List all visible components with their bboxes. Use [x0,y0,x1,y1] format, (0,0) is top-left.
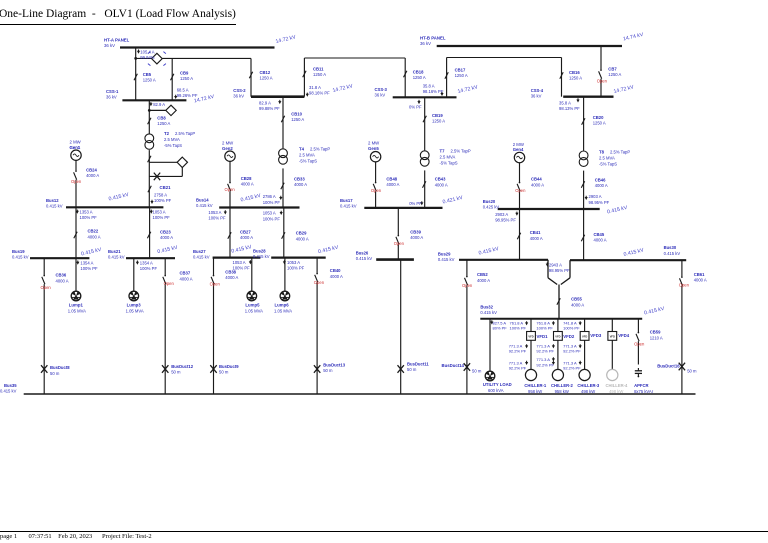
svg-text:100% PF: 100% PF [263,200,281,205]
svg-text:1053 A: 1053 A [263,211,276,216]
svg-text:1250 A: 1250 A [432,119,445,124]
svg-text:Open: Open [679,283,690,288]
svg-text:50 m: 50 m [171,369,181,374]
svg-text:98.95% PF: 98.95% PF [549,268,570,273]
svg-text:4000 A: 4000 A [694,278,707,283]
svg-text:98.16% PF: 98.16% PF [423,89,444,94]
svg-text:CB37: CB37 [180,271,191,276]
svg-text:Bus32: Bus32 [480,305,493,310]
svg-text:T4: T4 [299,147,305,152]
svg-text:2758 A: 2758 A [154,192,167,197]
svg-text:2943 A: 2943 A [549,263,562,268]
svg-text:100% PF: 100% PF [510,326,527,331]
svg-text:0.415 kV: 0.415 kV [664,251,681,256]
svg-text:CSS-1: CSS-1 [106,89,119,94]
svg-text:Open: Open [225,187,236,192]
svg-text:36 kV: 36 kV [106,95,117,100]
svg-text:CB33: CB33 [294,177,305,182]
svg-text:1053 A: 1053 A [208,210,221,215]
svg-text:1053 A: 1053 A [233,260,246,265]
svg-text:50 m: 50 m [407,367,417,372]
svg-text:80% PF: 80% PF [493,326,508,331]
svg-text:98.13% PF: 98.13% PF [559,106,580,111]
svg-text:Bus29: Bus29 [438,251,451,256]
svg-text:1053 A: 1053 A [153,210,166,215]
svg-text:CSS-3: CSS-3 [375,87,388,92]
svg-text:CB11: CB11 [313,67,324,72]
svg-text:4000 A: 4000 A [86,173,99,178]
svg-text:HT-B PANEL: HT-B PANEL [420,36,446,41]
svg-text:92.2% PF: 92.2% PF [536,362,554,367]
svg-text:1210 A: 1210 A [650,335,663,340]
svg-text:99.26% PF: 99.26% PF [177,93,198,98]
svg-text:VFD3: VFD3 [590,333,602,338]
svg-text:98.16% PF: 98.16% PF [309,90,330,95]
svg-text:4000 A: 4000 A [330,274,343,279]
svg-text:35.8 A: 35.8 A [423,84,435,89]
svg-text:Bus27: Bus27 [193,249,206,254]
svg-text:CSS-4: CSS-4 [531,88,544,93]
svg-text:36 kV: 36 kV [233,94,244,99]
svg-text:4000 A: 4000 A [530,236,543,241]
svg-text:T2: T2 [164,131,170,136]
svg-text:0.415 kV: 0.415 kV [240,193,262,204]
svg-text:50 m: 50 m [687,368,697,373]
svg-text:BusDuct14: BusDuct14 [442,363,465,368]
svg-text:1353 A: 1353 A [80,210,93,215]
svg-text:CB18: CB18 [413,70,424,75]
svg-text:4000 A: 4000 A [410,235,423,240]
svg-text:CHILLER-2: CHILLER-2 [551,383,574,388]
svg-text:92.2% PF: 92.2% PF [509,366,527,371]
svg-text:0.415 kV: 0.415 kV [438,257,455,262]
svg-text:0.415 kV: 0.415 kV [607,205,629,216]
svg-text:36 kV: 36 kV [375,93,386,98]
svg-text:Bus14: Bus14 [196,198,209,203]
svg-text:0.415 kV: 0.415 kV [157,245,179,256]
svg-text:4000 A: 4000 A [594,238,607,243]
svg-text:4000 A: 4000 A [294,182,307,187]
svg-text:Open: Open [515,188,526,193]
svg-text:CB28: CB28 [241,176,252,181]
svg-text:Open: Open [462,283,473,288]
svg-text:CB41: CB41 [530,230,541,235]
svg-text:14.72 kV: 14.72 kV [457,84,479,95]
svg-text:2.5% TapP: 2.5% TapP [310,147,330,152]
svg-text:Lump5: Lump5 [245,303,260,308]
svg-text:APFCR: APFCR [634,383,648,388]
svg-text:100% PF: 100% PF [154,198,172,203]
svg-text:CB20: CB20 [593,115,604,120]
svg-text:VFD1: VFD1 [537,334,549,339]
svg-text:498 kW: 498 kW [609,389,623,394]
svg-text:CB46: CB46 [595,178,606,183]
svg-text:CHILLER-1: CHILLER-1 [524,383,547,388]
svg-text:CB48: CB48 [386,177,397,182]
svg-text:36 kV: 36 kV [531,94,542,99]
svg-text:0.415 kV: 0.415 kV [0,389,17,394]
svg-text:1250 A: 1250 A [157,121,170,126]
svg-text:Bus28: Bus28 [253,248,266,253]
svg-text:92.2% PF: 92.2% PF [563,349,581,354]
svg-text:CB21: CB21 [160,185,172,190]
svg-text:600 kVA: 600 kVA [488,388,504,393]
svg-text:0.415 kV: 0.415 kV [81,247,103,258]
svg-text:0.421 kV: 0.421 kV [442,195,464,206]
svg-text:CB23: CB23 [160,229,171,234]
svg-text:0.415 kV: 0.415 kV [478,246,500,257]
svg-text:100% PF: 100% PF [153,215,171,220]
svg-text:CB45: CB45 [594,232,605,237]
svg-text:Open: Open [41,285,52,290]
svg-text:0.415 kV: 0.415 kV [356,256,373,261]
svg-text:2.5% TapP: 2.5% TapP [610,150,630,155]
svg-text:14.72 kV: 14.72 kV [332,83,354,94]
svg-text:98.95% PF: 98.95% PF [495,218,516,223]
svg-text:82.9 A: 82.9 A [153,102,165,107]
svg-text:100% PF: 100% PF [287,265,305,270]
svg-text:100% PF: 100% PF [80,215,98,220]
svg-text:4000 A: 4000 A [531,182,544,187]
svg-text:Open: Open [314,280,325,285]
svg-text:CB61: CB61 [694,272,705,277]
svg-text:CB8: CB8 [157,116,166,121]
svg-text:0.415 kV: 0.415 kV [644,306,666,317]
svg-text:50 m: 50 m [50,371,60,376]
svg-text:BusDuct12: BusDuct12 [171,364,194,369]
svg-text:4000 A: 4000 A [225,275,238,280]
svg-text:Bus17: Bus17 [340,198,353,203]
svg-text:0.415 kV: 0.415 kV [340,204,357,209]
svg-text:105.4 A: 105.4 A [140,49,154,54]
svg-text:CB43: CB43 [435,177,446,182]
svg-text:1.05 MVA: 1.05 MVA [245,308,263,313]
svg-text:1250 A: 1250 A [260,76,273,81]
svg-text:CB10: CB10 [291,112,302,117]
svg-text:0.415 kV: 0.415 kV [46,203,63,208]
svg-text:14.72 kV: 14.72 kV [613,84,635,95]
svg-text:1250 A: 1250 A [291,117,304,122]
svg-text:UTILITY LOAD: UTILITY LOAD [483,382,512,387]
svg-text:0.415 kV: 0.415 kV [193,254,210,259]
svg-text:CB19: CB19 [432,113,443,118]
svg-text:0.415 kV: 0.415 kV [480,310,497,315]
svg-text:2 MW: 2 MW [513,142,525,147]
svg-text:100% PF: 100% PF [563,326,580,331]
svg-text:4000 A: 4000 A [595,183,608,188]
svg-text:50 m: 50 m [219,369,229,374]
svg-text:4000 A: 4000 A [296,236,309,241]
svg-text:CB16: CB16 [569,70,580,75]
svg-text:Bus12: Bus12 [46,198,59,203]
svg-text:T7: T7 [440,149,446,154]
svg-text:Open: Open [371,188,382,193]
svg-text:1250 A: 1250 A [569,76,582,81]
svg-text:35.8 A: 35.8 A [559,100,571,105]
svg-text:BusDuct8: BusDuct8 [50,365,70,370]
svg-text:1250 A: 1250 A [313,72,326,77]
svg-text:4000 A: 4000 A [180,276,193,281]
svg-text:2.5 MVA: 2.5 MVA [599,156,615,161]
svg-text:BusDuct9: BusDuct9 [219,364,239,369]
svg-text:82.9 A: 82.9 A [259,100,271,105]
svg-text:VFD: VFD [555,334,560,338]
svg-text:Open: Open [71,179,82,184]
svg-text:CB5: CB5 [143,72,152,77]
svg-text:-5% TapS: -5% TapS [599,162,617,167]
svg-text:100% PF: 100% PF [233,265,251,270]
svg-text:2903 A: 2903 A [589,194,602,199]
svg-text:1053 A: 1053 A [287,260,300,265]
svg-text:1.05 MVA: 1.05 MVA [68,308,86,313]
svg-text:1250 A: 1250 A [593,121,606,126]
svg-text:Bus35: Bus35 [4,383,17,388]
svg-text:1250 A: 1250 A [455,73,468,78]
svg-text:CHILLER-4: CHILLER-4 [606,383,629,388]
svg-text:1250 A: 1250 A [180,76,193,81]
svg-text:Bus26: Bus26 [356,250,369,255]
svg-text:0.425 kV: 0.425 kV [483,204,500,209]
svg-text:92.2% PF: 92.2% PF [509,349,527,354]
svg-text:50 m: 50 m [472,368,482,373]
svg-text:1.05 MVA: 1.05 MVA [274,308,292,313]
svg-text:0% PF: 0% PF [409,105,422,110]
svg-text:2.5 MVA: 2.5 MVA [299,153,315,158]
svg-text:4000 A: 4000 A [435,182,448,187]
svg-text:0.415 kV: 0.415 kV [196,203,213,208]
svg-text:VFD: VFD [528,334,533,338]
svg-text:VFD2: VFD2 [563,334,575,339]
svg-text:Lump6: Lump6 [275,303,290,308]
svg-text:958 kW: 958 kW [555,389,569,394]
svg-text:99.88% PF: 99.88% PF [259,106,280,111]
svg-text:CB44: CB44 [531,177,542,182]
svg-text:2.5% TapP: 2.5% TapP [175,131,195,136]
svg-text:0.415 kV: 0.415 kV [253,254,270,259]
svg-text:CB22: CB22 [88,229,99,234]
svg-text:1250 A: 1250 A [608,72,621,77]
svg-text:CSS-2: CSS-2 [233,88,246,93]
svg-text:Open: Open [597,78,608,83]
svg-text:CB7: CB7 [608,67,617,72]
svg-text:VFD: VFD [610,334,615,338]
svg-text:0.415 kV: 0.415 kV [12,254,29,259]
svg-text:-5% TapS: -5% TapS [440,161,458,166]
svg-text:31.8 A: 31.8 A [309,85,321,90]
svg-text:0.415 kV: 0.415 kV [318,245,340,256]
svg-text:Bus20: Bus20 [483,199,496,204]
svg-text:100% PF: 100% PF [80,266,98,271]
svg-text:CB39: CB39 [410,230,421,235]
svg-text:498 kW: 498 kW [581,389,595,394]
svg-text:Open: Open [164,281,175,286]
svg-text:0.415 kV: 0.415 kV [108,254,125,259]
svg-text:36 kV: 36 kV [420,41,431,46]
svg-text:1354 A: 1354 A [140,260,153,265]
svg-text:BusDuct16: BusDuct16 [657,363,680,368]
svg-text:-5% TapS: -5% TapS [164,143,182,148]
svg-text:Open: Open [394,241,405,246]
svg-text:92.2% PF: 92.2% PF [563,366,581,371]
svg-text:Bus19: Bus19 [12,249,25,254]
svg-text:BusDuct11: BusDuct11 [407,362,429,367]
svg-text:CB36: CB36 [56,273,67,278]
svg-text:0.415 kV: 0.415 kV [623,247,645,258]
svg-text:T8: T8 [599,150,605,155]
svg-text:CB29: CB29 [296,231,307,236]
svg-text:CB9: CB9 [180,71,189,76]
svg-text:99.94%: 99.94% [140,55,154,60]
svg-text:958 kW: 958 kW [528,389,542,394]
svg-text:2 MW: 2 MW [368,141,380,146]
svg-text:2 MW: 2 MW [222,141,234,146]
svg-text:-5% TapS: -5% TapS [299,159,317,164]
svg-text:92.2% PF: 92.2% PF [536,349,554,354]
svg-text:100% PF: 100% PF [208,216,226,221]
svg-text:4000 A: 4000 A [386,182,399,187]
svg-text:50 m: 50 m [323,368,333,373]
svg-text:CB17: CB17 [455,68,466,73]
svg-text:CB40: CB40 [330,268,341,273]
svg-text:2.5% TapP: 2.5% TapP [451,149,471,154]
svg-text:1250 A: 1250 A [413,75,426,80]
svg-text:Open: Open [210,281,221,286]
svg-text:1354 A: 1354 A [80,260,93,265]
svg-text:0.415 kV: 0.415 kV [231,244,253,255]
svg-text:Open: Open [634,342,645,347]
svg-text:CHILLER-3: CHILLER-3 [577,383,600,388]
svg-text:2.5 MVA: 2.5 MVA [440,155,456,160]
svg-text:4000 A: 4000 A [241,182,254,187]
svg-text:4000 A: 4000 A [88,234,101,239]
svg-text:Gen1: Gen1 [70,145,81,150]
svg-text:HT-A PANEL: HT-A PANEL [104,38,130,43]
svg-text:1.05 MVA: 1.05 MVA [126,308,144,313]
svg-text:CB27: CB27 [240,229,251,234]
svg-text:Gen5: Gen5 [368,146,379,151]
svg-text:CB24: CB24 [86,168,97,173]
svg-text:14.72 kV: 14.72 kV [275,34,297,45]
svg-text:68.5 A: 68.5 A [177,88,189,93]
svg-text:Bus30: Bus30 [664,245,677,250]
svg-text:36 kV: 36 kV [104,43,115,48]
svg-text:100% PF: 100% PF [140,266,158,271]
svg-text:0.415 kV: 0.415 kV [108,192,130,203]
svg-text:CB59: CB59 [650,330,661,335]
svg-text:VFD4: VFD4 [618,333,630,338]
svg-text:14.74 kV: 14.74 kV [623,32,645,43]
svg-text:2786 A: 2786 A [263,194,276,199]
svg-text:2.5 MVA: 2.5 MVA [164,137,180,142]
svg-text:1250 A: 1250 A [143,78,156,83]
svg-text:Lump1: Lump1 [69,302,84,307]
svg-text:4000 A: 4000 A [160,235,173,240]
svg-text:BusDuct13: BusDuct13 [323,363,346,368]
svg-text:CB12: CB12 [260,70,271,75]
svg-text:4000 A: 4000 A [240,235,253,240]
svg-text:VFD: VFD [582,334,587,338]
svg-text:CB55: CB55 [571,297,582,302]
svg-text:2903 A: 2903 A [495,212,508,217]
svg-text:Gen4: Gen4 [513,147,524,152]
svg-text:4000 A: 4000 A [56,278,69,283]
svg-text:98.95% PF: 98.95% PF [589,200,610,205]
svg-text:2 MW: 2 MW [70,140,82,145]
svg-text:Gen2: Gen2 [222,146,233,151]
svg-text:8x75 kVAr: 8x75 kVAr [634,389,654,394]
svg-text:Bus21: Bus21 [108,249,121,254]
svg-text:4000 A: 4000 A [477,278,490,283]
svg-text:0% PF: 0% PF [409,201,422,206]
svg-text:100% PF: 100% PF [536,326,553,331]
svg-text:Lump3: Lump3 [127,302,142,307]
svg-text:100% PF: 100% PF [263,216,281,221]
svg-text:4000 A: 4000 A [571,302,584,307]
svg-text:CB52: CB52 [477,272,488,277]
